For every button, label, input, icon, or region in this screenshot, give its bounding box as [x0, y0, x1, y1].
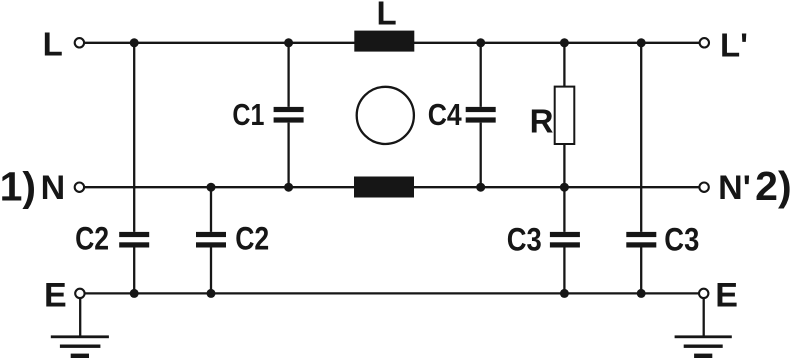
svg-text:C1: C1: [232, 97, 264, 132]
wire vertical L-to-N through C1: [287, 43, 289, 187]
wire vertical L-to-E through C2 left: [133, 43, 135, 294]
svg-text:C2: C2: [75, 221, 109, 257]
ground left bar 1: [51, 335, 109, 338]
wire E line (bottom horizontal): [86, 292, 699, 294]
ground left stem: [79, 298, 81, 337]
svg-text:R: R: [530, 102, 554, 139]
svg-text:L: L: [43, 25, 63, 62]
svg-text:C3: C3: [664, 221, 699, 257]
capacitor C4 plates: [466, 107, 496, 123]
svg-text:1): 1): [0, 164, 36, 210]
terminal L prime: [700, 38, 709, 47]
capacitor C3 right plates: [626, 232, 656, 248]
svg-text:E: E: [44, 277, 67, 315]
wire vertical N-to-E through C2 right: [210, 187, 212, 293]
ground right bar 3: [694, 354, 712, 358]
inductor L core circle: [357, 87, 414, 144]
junction dot E line at C3 right branch: [637, 289, 646, 298]
junction dot N line at C4 branch: [476, 183, 485, 192]
terminal L: [75, 38, 84, 47]
wire vertical L-to-E through R and C3 left: [563, 43, 565, 294]
junction dot L line at C1 branch: [284, 38, 293, 47]
inductor L common-mode choke winding top: [354, 31, 414, 52]
inductor L common-mode choke winding bottom: [354, 177, 414, 198]
svg-text:C4: C4: [428, 97, 463, 132]
junction dot N line at R / C3 left branch: [560, 183, 569, 192]
terminal E right: [699, 289, 708, 298]
capacitor C2 left plates: [119, 232, 149, 248]
svg-text:E: E: [715, 277, 738, 315]
svg-text:N': N': [718, 169, 751, 207]
capacitor C2 right plates: [196, 232, 226, 248]
ground left bar 2: [60, 345, 101, 348]
junction dot L line at R branch: [560, 38, 569, 47]
junction dot N line at C1 branch: [284, 183, 293, 192]
svg-text:C3: C3: [507, 221, 542, 257]
ground right bar 2: [684, 345, 723, 348]
junction dot N line at C2 right branch: [207, 183, 216, 192]
capacitor C3 left plates: [550, 232, 580, 248]
capacitor C1 plates: [274, 107, 304, 123]
svg-text:C2: C2: [235, 221, 269, 257]
terminal N prime: [699, 183, 708, 192]
junction dot E line at C2 right branch: [207, 289, 216, 298]
ground right stem: [703, 298, 705, 337]
resistor R body: [555, 87, 575, 144]
junction dot L line at C3 right branch: [637, 38, 646, 47]
svg-text:2): 2): [755, 163, 790, 209]
terminal E left: [75, 289, 84, 298]
junction dot L line at C4 branch: [476, 38, 485, 47]
svg-text:N: N: [41, 169, 66, 207]
svg-text:L': L': [720, 27, 748, 64]
junction dot L line at C2 left branch: [130, 38, 139, 47]
wire L line (top horizontal): [85, 42, 700, 44]
ground left bar 3: [71, 354, 89, 358]
wire vertical L-to-N through C4: [480, 43, 482, 187]
wire vertical L-to-E through C3 right: [640, 43, 642, 294]
wire N line (middle horizontal): [85, 186, 700, 188]
junction dot E line at C3 left branch: [560, 289, 569, 298]
junction dot E line at C2 left branch: [130, 289, 139, 298]
svg-text:L: L: [377, 0, 397, 31]
ground right bar 1: [675, 335, 732, 338]
terminal N: [75, 183, 84, 192]
